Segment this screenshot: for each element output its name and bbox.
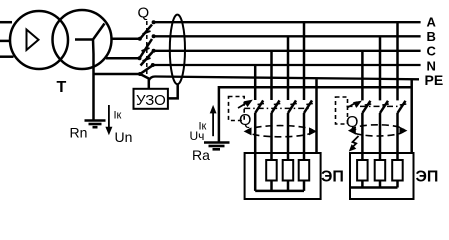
contactor Q1 pole 4 tick [306, 104, 313, 105]
wire input phase 2 [0, 40, 11, 43]
switch Q pole 4 blade [140, 66, 152, 74]
transformer T delta winding symbol [27, 30, 39, 51]
contactor Q1 pole 2 blade [272, 100, 280, 113]
transformer T secondary circle [53, 10, 112, 69]
svg-text:Q: Q [346, 114, 358, 131]
svg-text:УЗО: УЗО [136, 92, 166, 109]
contactor Q2 pole 1 tick [365, 104, 372, 105]
svg-text:Iк: Iк [114, 110, 122, 122]
contactor Q1 pole 3 tick [290, 104, 297, 105]
wire PE drop to load 2 enclosure [410, 79, 413, 153]
bus C [154, 50, 421, 52]
UZO device box [134, 89, 168, 109]
wire group1 drop A [303, 22, 306, 100]
wire transformer output phase B [106, 57, 140, 60]
svg-text:Q: Q [138, 5, 150, 22]
wire input phase 3 [0, 55, 14, 58]
wire PE drop to load 1 enclosure [315, 79, 318, 153]
wire group1 drop N [254, 65, 257, 100]
svg-text:Rn: Rn [70, 125, 88, 141]
svg-text:Ra: Ra [192, 147, 210, 163]
node phase A input [138, 37, 142, 41]
node neutral input [138, 72, 142, 76]
contactor Q2 pole 3 blade [398, 101, 406, 113]
wire group2 drop B [379, 36, 382, 100]
RCD sensing dashed ellipse group1 [247, 126, 313, 137]
heater element R1 group2 [357, 160, 368, 181]
ground Rn electrode [85, 121, 106, 128]
svg-text:Un: Un [115, 129, 133, 145]
switch Q pole 3 blade [141, 52, 153, 66]
svg-text:B: B [427, 29, 436, 44]
wire input phase 1 [0, 21, 12, 24]
contactor Q1 pole 1 blade [255, 100, 263, 113]
svg-text:T: T [57, 79, 67, 96]
node bus B start [152, 34, 156, 38]
contactor Q2 pole 2 blade [380, 101, 388, 113]
bus N [153, 64, 421, 66]
switch Q pole 2 blade [140, 39, 153, 58]
arrow Ik fault current at neutral ground [108, 105, 110, 128]
switch Q pole 2 contact tick [142, 48, 150, 51]
arrow fault zigzag to enclosure [351, 136, 359, 149]
contactor Q1 pole 2 tick [274, 104, 281, 105]
RCD sensing dashed ellipse group2 [351, 125, 404, 136]
contactor Q2 pole 1 blade [362, 101, 370, 113]
arrow Ik fault current at load ground [212, 111, 214, 136]
svg-text:Q: Q [239, 112, 251, 129]
wire group2 load wire C lower [361, 113, 364, 160]
arrowhead left ellipse group2 [348, 127, 356, 135]
wire toroid to UZO box [168, 84, 178, 98]
arrowhead left ellipse group1 [244, 127, 252, 135]
transformer T star winding symbol [75, 24, 105, 55]
contactor Q1 pole 4 blade [304, 100, 312, 113]
wire group1 star bus [255, 181, 304, 191]
load ЭП1 enclosure box [245, 153, 321, 199]
load ЭП2 enclosure box [350, 153, 414, 199]
wire neutral vertical from star point [92, 54, 95, 120]
contactor Q2 pole 3 tick [400, 104, 407, 105]
heater element R2 group2 [375, 160, 386, 181]
wire group1 load wire C lower [270, 113, 273, 160]
arrowhead right ellipse group2 [400, 127, 408, 135]
heater element R3 group1 [299, 160, 310, 181]
heater element R3 group2 [392, 160, 403, 181]
wire group1 drop B [287, 36, 290, 100]
switch Q pole 3 contact tick [143, 58, 151, 61]
wire group2 drop C [361, 51, 364, 101]
arrow Q2 trip action [348, 102, 358, 108]
wire group1 load wire A lower [303, 113, 306, 160]
bus A [154, 21, 421, 23]
heater element R2 group1 [283, 160, 294, 181]
switch Q pole 1 contact tick [143, 31, 151, 34]
svg-text:C: C [427, 44, 437, 59]
wire group2 drop A [396, 22, 399, 100]
current transformer toroid of UZO [170, 15, 185, 85]
ground Ra electrode [204, 143, 230, 150]
node phase B input [138, 56, 142, 60]
heater element R1 group1 [266, 160, 277, 181]
wire group2 star bus [351, 181, 398, 188]
wire group1 drop C [270, 51, 273, 100]
contactor Q1 pole 3 blade [288, 100, 296, 113]
contactor Q1 linkage dash-dot line [244, 107, 310, 109]
arrowhead right ellipse group1 [309, 127, 317, 135]
svg-text:ЭП: ЭП [416, 169, 439, 186]
wire transformer output phase A [111, 38, 141, 41]
wire touch-voltage ground bond line [219, 87, 412, 142]
svg-text:A: A [427, 15, 437, 30]
contactor Q2 linkage dash-dot line [347, 105, 399, 107]
wire group1 load wire N lower [254, 113, 257, 191]
bus PE from junction [149, 77, 419, 81]
svg-text:ЭП: ЭП [321, 169, 344, 186]
wire group1 load wire B lower [287, 113, 290, 160]
svg-text:PE: PE [425, 72, 444, 88]
switch Q pole 1 blade [140, 25, 152, 39]
contactor Q1 actuator dashed box [229, 97, 245, 121]
node bus A start [152, 20, 156, 24]
contactor Q2 pole 2 tick [382, 104, 389, 105]
transformer T primary circle [10, 11, 68, 69]
contactor Q1 pole 1 tick [258, 104, 265, 105]
node bus C start [152, 49, 156, 53]
arrow Q1 trip action [238, 102, 249, 109]
wire neutral to switch [94, 73, 141, 76]
switch Q linkage dash line [146, 21, 148, 78]
wire group2 load wire B lower [379, 113, 382, 160]
svg-text:Uч: Uч [190, 129, 205, 143]
bus B [154, 35, 421, 37]
contactor Q2 actuator dashed box [336, 97, 348, 124]
wire PEN junction to UZO box [140, 74, 149, 89]
node bus N start [151, 63, 155, 67]
wire group2 load wire A lower [396, 113, 399, 160]
